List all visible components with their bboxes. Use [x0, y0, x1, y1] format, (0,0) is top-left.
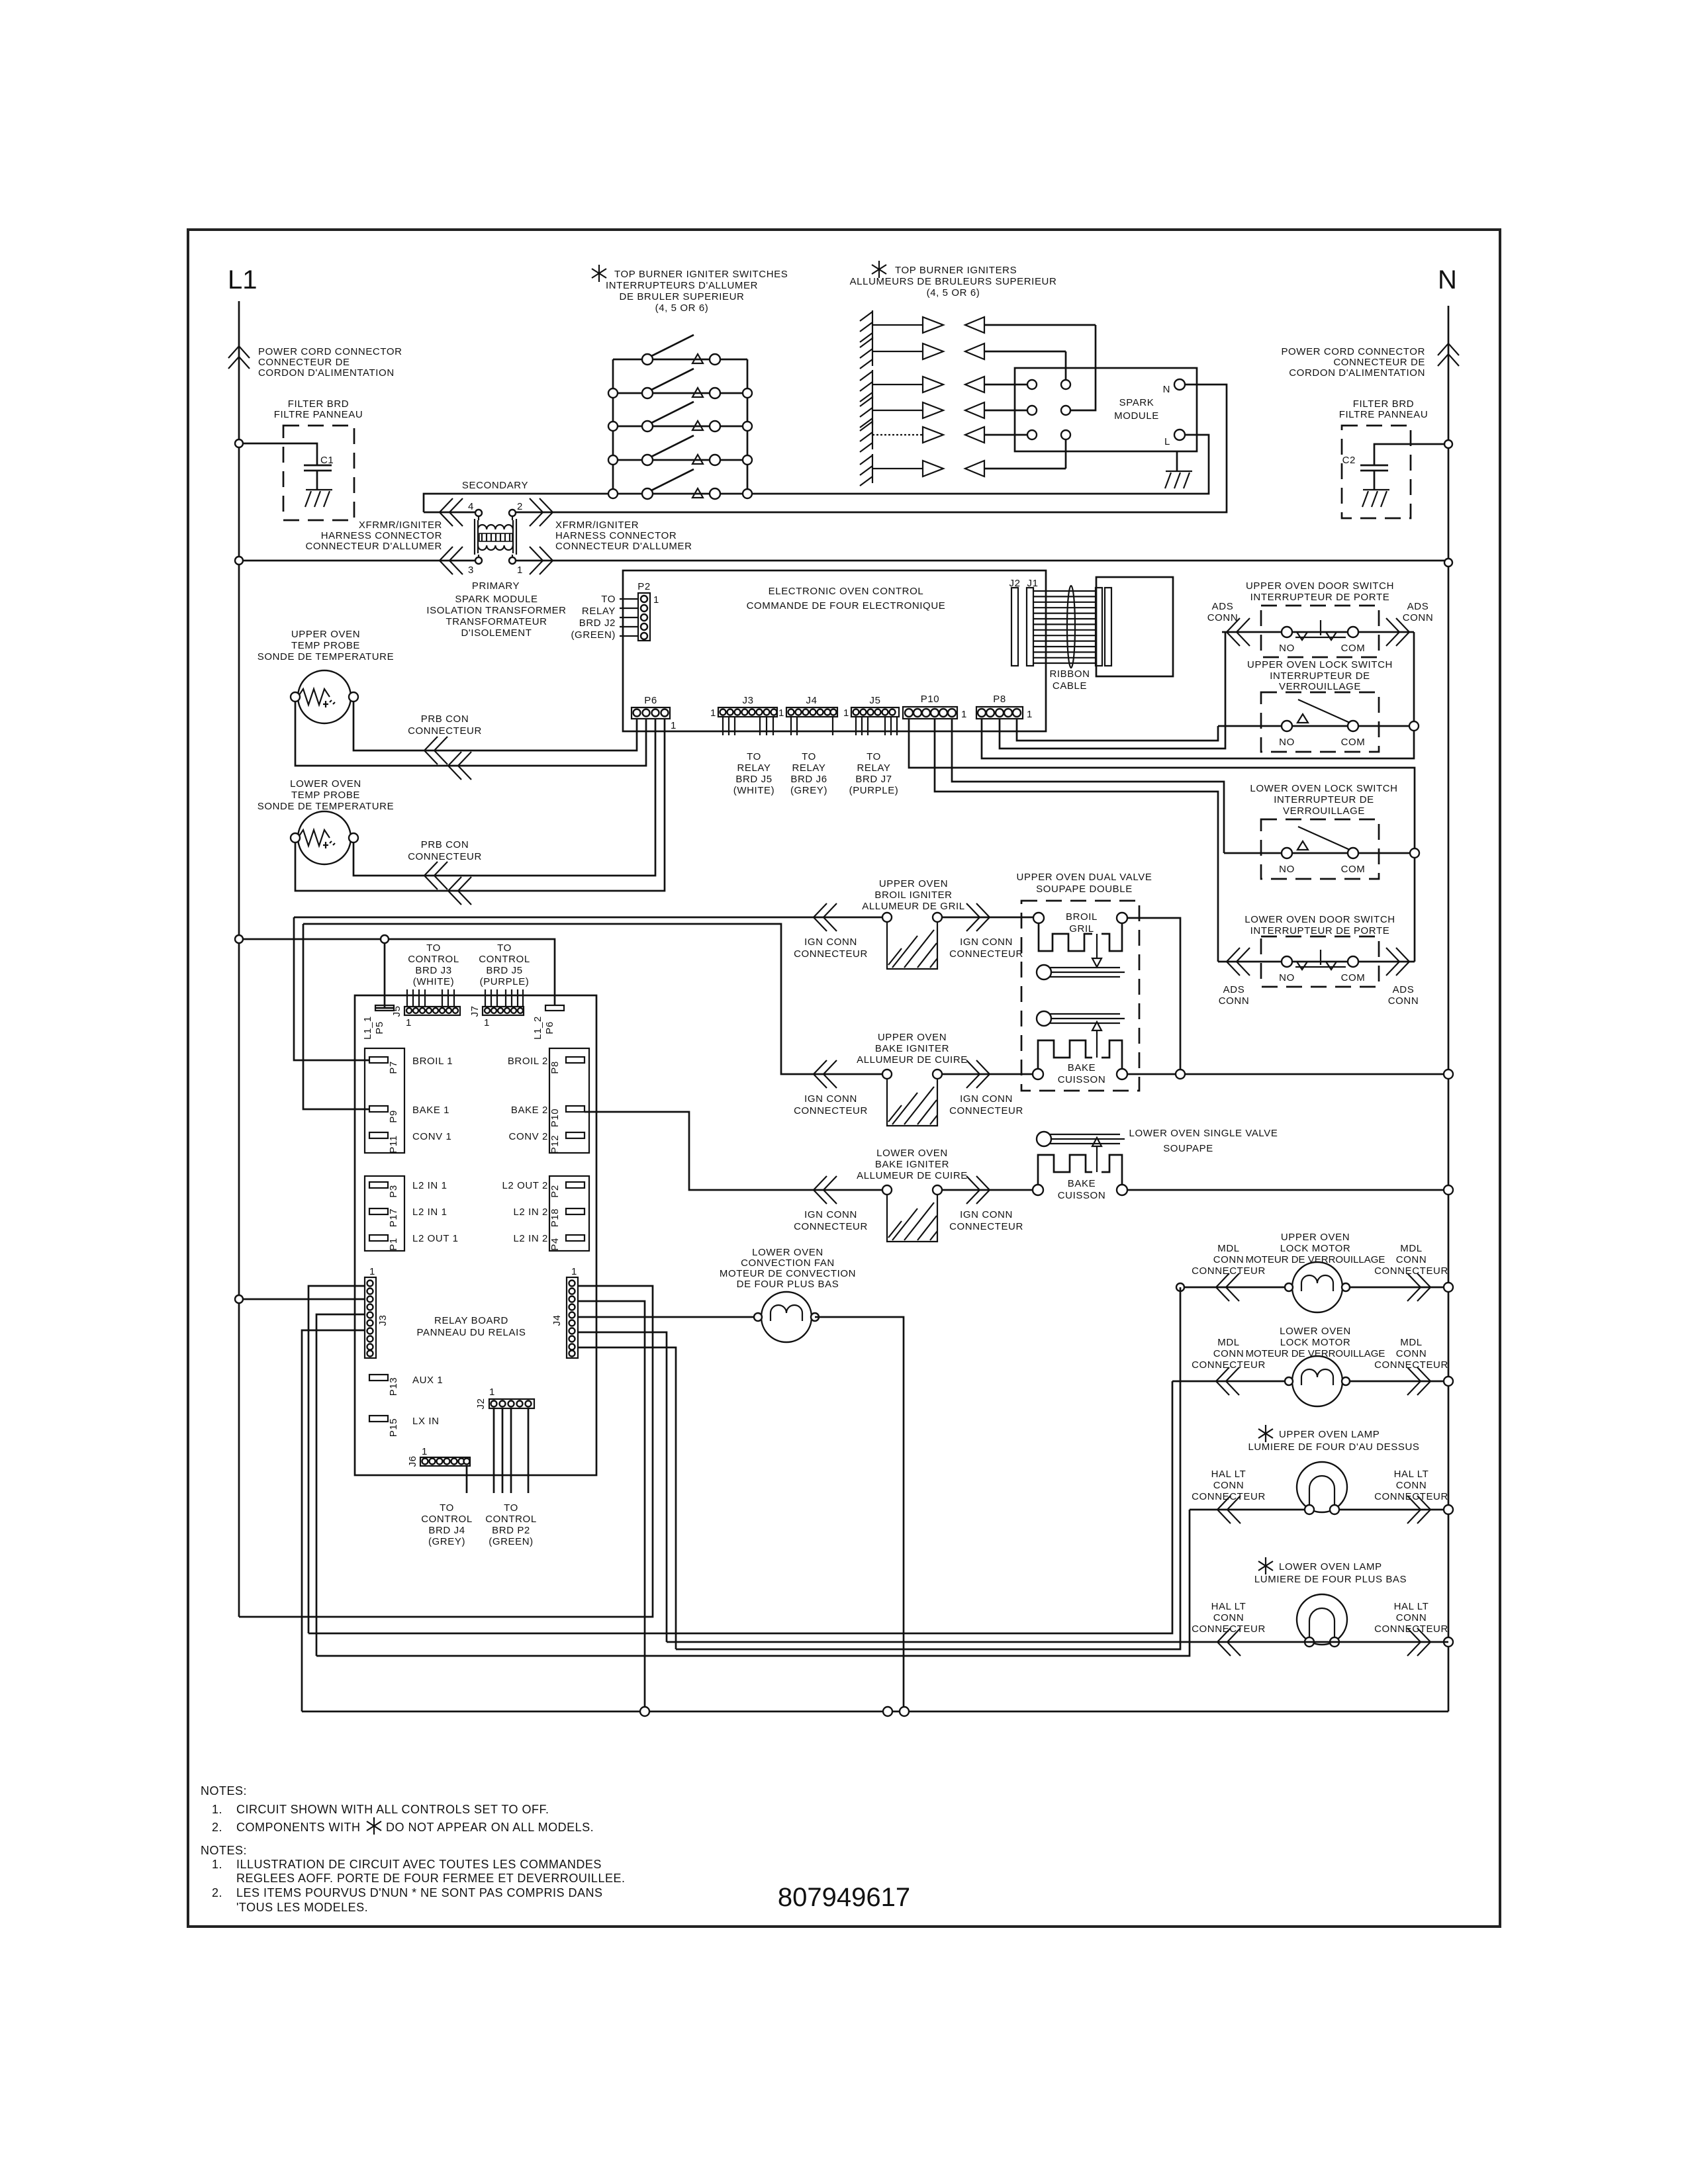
- svg-text:RELAY: RELAY: [582, 606, 616, 617]
- svg-text:HARNESS CONNECTOR: HARNESS CONNECTOR: [555, 530, 677, 541]
- svg-text:INTERRUPTEUR DE PORTE: INTERRUPTEUR DE PORTE: [1250, 925, 1390, 936]
- label top burner igniters: [872, 261, 886, 278]
- wire C2 to N: [1374, 444, 1448, 465]
- svg-text:P3: P3: [388, 1185, 399, 1198]
- wire upper probe right to P6 pin1: [353, 702, 637, 751]
- svg-text:IGN CONN: IGN CONN: [960, 1093, 1013, 1105]
- motor M3 lower lock: [1285, 1356, 1350, 1406]
- switch row 2: [608, 369, 752, 398]
- SECTION: loads: [720, 1232, 1453, 1711]
- label lower oven lamp: [1258, 1557, 1273, 1574]
- svg-text:UPPER OVEN: UPPER OVEN: [879, 878, 948, 889]
- svg-text:IGN CONN: IGN CONN: [960, 1209, 1013, 1220]
- connector J3 relay: [365, 1266, 389, 1358]
- svg-text:J3: J3: [377, 1314, 389, 1326]
- svg-text:INTERRUPTEUR DE PORTE: INTERRUPTEUR DE PORTE: [1250, 592, 1390, 603]
- temp probe RT1 upper: [291, 670, 358, 723]
- svg-text:ADS: ADS: [1212, 601, 1234, 612]
- svg-text:P12: P12: [549, 1135, 561, 1154]
- svg-text:VERROUILLAGE: VERROUILLAGE: [1283, 805, 1365, 817]
- svg-text:(GREEN): (GREEN): [489, 1536, 534, 1547]
- SECTION: probes: [258, 629, 665, 905]
- svg-text:CONN: CONN: [1403, 612, 1434, 623]
- wire bus B to lower lamp and N: [667, 1641, 1448, 1643]
- label upper oven lamp: [1258, 1425, 1273, 1442]
- upper oven dual valve box: [1021, 901, 1139, 1091]
- wire igniter row1 to pin: [1070, 325, 1096, 410]
- svg-text:UPPER OVEN: UPPER OVEN: [1281, 1232, 1350, 1243]
- burner upper oven broil: [1037, 965, 1125, 979]
- svg-text:D'ISOLEMENT: D'ISOLEMENT: [461, 627, 532, 639]
- svg-text:(GREEN): (GREEN): [571, 629, 616, 641]
- svg-text:C2: C2: [1342, 455, 1356, 466]
- svg-text:LUMIERE DE FOUR PLUS BAS: LUMIERE DE FOUR PLUS BAS: [1254, 1574, 1407, 1585]
- svg-text:SONDE DE TEMPERATURE: SONDE DE TEMPERATURE: [258, 801, 394, 812]
- svg-text:TO: TO: [440, 1502, 454, 1514]
- wire igniter to bake valve: [942, 1073, 1033, 1075]
- igniter electrode row 3: [860, 370, 1027, 402]
- svg-text:CONNECTEUR: CONNECTEUR: [1192, 1491, 1266, 1502]
- svg-text:REGLEES AOFF. PORTE DE FOUR FE: REGLEES AOFF. PORTE DE FOUR FERMEE ET DE…: [236, 1872, 625, 1885]
- lower door switch contacts: [1218, 950, 1415, 983]
- wire igniter to broil valve: [942, 917, 1033, 919]
- svg-text:CONN: CONN: [1213, 1254, 1244, 1265]
- svg-text:1: 1: [369, 1266, 375, 1277]
- svg-text:TO: TO: [497, 942, 512, 954]
- wire J4 to bottom bus: [577, 1301, 645, 1711]
- svg-text:SPARK MODULE: SPARK MODULE: [455, 594, 538, 605]
- hal chevrons lower: [1217, 1628, 1241, 1656]
- single valve terminals: [1033, 1185, 1043, 1195]
- wire P8 pin1 to upper lock NO: [1017, 719, 1218, 741]
- svg-text:NO: NO: [1279, 643, 1295, 654]
- motor M1 convection fan: [754, 1292, 819, 1342]
- pin P17: [369, 1208, 388, 1214]
- connector J4: [778, 695, 837, 735]
- svg-text:CONTROL: CONTROL: [408, 954, 459, 965]
- svg-text:P9: P9: [388, 1110, 399, 1123]
- svg-text:CONV 1: CONV 1: [412, 1131, 451, 1142]
- svg-text:AUX 1: AUX 1: [412, 1375, 443, 1386]
- svg-text:1: 1: [1027, 709, 1033, 720]
- svg-text:TRANSFORMATEUR: TRANSFORMATEUR: [445, 616, 547, 627]
- svg-text:CIRCUIT SHOWN WITH ALL CONTROL: CIRCUIT SHOWN WITH ALL CONTROLS SET TO O…: [236, 1803, 549, 1816]
- svg-text:BRD J5: BRD J5: [735, 774, 772, 785]
- svg-text:CONN: CONN: [1388, 995, 1419, 1007]
- lamp DS2 lower oven: [1297, 1594, 1347, 1647]
- pin P13: [369, 1375, 388, 1381]
- svg-text:J2: J2: [475, 1398, 487, 1409]
- svg-text:LOWER OVEN LOCK SWITCH: LOWER OVEN LOCK SWITCH: [1250, 783, 1397, 794]
- svg-text:MOTEUR DE CONVECTION: MOTEUR DE CONVECTION: [720, 1268, 856, 1279]
- svg-text:HAL LT: HAL LT: [1211, 1469, 1246, 1480]
- wire J4 to bus B: [577, 1332, 667, 1642]
- SECTION: notes: [201, 1784, 910, 1914]
- lower oven door switch S4 box: [1261, 936, 1379, 987]
- svg-text:CONNECTEUR: CONNECTEUR: [1374, 1265, 1448, 1277]
- svg-text:CUISSON: CUISSON: [1058, 1074, 1106, 1085]
- svg-text:FILTER BRD: FILTER BRD: [1353, 398, 1414, 410]
- svg-text:4: 4: [468, 501, 474, 512]
- svg-text:NO: NO: [1279, 864, 1295, 875]
- svg-text:CONNECTEUR DE: CONNECTEUR DE: [258, 357, 350, 368]
- pin P7: [369, 1057, 388, 1063]
- svg-text:CONN: CONN: [1207, 612, 1239, 623]
- igniter lower bake: [882, 1185, 942, 1242]
- svg-text:ISOLATION TRANSFORMER: ISOLATION TRANSFORMER: [426, 605, 566, 616]
- svg-text:(GREY): (GREY): [790, 785, 827, 796]
- svg-text:BRD J7: BRD J7: [855, 774, 892, 785]
- wire primary line left: [239, 560, 475, 562]
- svg-text:COM: COM: [1341, 737, 1366, 748]
- svg-text:CONNECTEUR D'ALLUMER: CONNECTEUR D'ALLUMER: [555, 541, 692, 552]
- svg-text:(WHITE): (WHITE): [413, 976, 455, 987]
- ign conn chevron left upper bake: [814, 1060, 837, 1088]
- connector J5: [843, 695, 899, 735]
- svg-text:BRD J5: BRD J5: [486, 965, 522, 976]
- junction L1/primary: [235, 557, 243, 565]
- spark module ground lead: [1176, 451, 1178, 471]
- svg-text:TO: TO: [747, 751, 761, 762]
- junction L1/C1: [235, 439, 243, 447]
- pin P18: [566, 1208, 585, 1214]
- junction lower rail lock COM: [1410, 848, 1419, 858]
- svg-text:L2 IN 1: L2 IN 1: [412, 1206, 447, 1218]
- svg-text:J7: J7: [469, 1005, 481, 1017]
- svg-text:PRB CON: PRB CON: [421, 713, 469, 725]
- temp probe RT2 lower: [291, 811, 358, 864]
- svg-text:P4: P4: [549, 1238, 561, 1251]
- svg-text:CONNECTEUR: CONNECTEUR: [794, 1105, 868, 1116]
- svg-text:P18: P18: [549, 1208, 561, 1228]
- junction bottom bus pair left: [883, 1707, 892, 1716]
- svg-text:3: 3: [468, 565, 474, 576]
- prb con chevrons upper: [424, 737, 447, 764]
- svg-text:MODULE: MODULE: [1114, 410, 1159, 422]
- wire P10 pin4 to lower door NO: [935, 719, 1218, 962]
- svg-text:LOWER OVEN DOOR SWITCH: LOWER OVEN DOOR SWITCH: [1244, 914, 1395, 925]
- svg-text:CONN: CONN: [1213, 1612, 1244, 1623]
- upper lock switch contacts: [1218, 700, 1414, 748]
- svg-text:TO: TO: [802, 751, 816, 762]
- svg-text:COMMANDE DE FOUR ELECTRONIQUE: COMMANDE DE FOUR ELECTRONIQUE: [747, 600, 946, 612]
- svg-text:2.: 2.: [212, 1821, 222, 1834]
- svg-text:MDL: MDL: [1400, 1243, 1422, 1254]
- SECTION: right switches: [909, 580, 1433, 1007]
- svg-text:UPPER OVEN LOCK SWITCH: UPPER OVEN LOCK SWITCH: [1247, 659, 1393, 670]
- igniter electrode row 2: [860, 337, 1066, 369]
- svg-text:BRD J4: BRD J4: [428, 1525, 465, 1536]
- svg-text:CONN: CONN: [1219, 995, 1250, 1007]
- svg-text:L2 IN 1: L2 IN 1: [412, 1180, 447, 1191]
- connector P10: [903, 694, 967, 720]
- svg-text:IGN CONN: IGN CONN: [804, 1093, 857, 1105]
- pin P10 relay: [566, 1106, 585, 1112]
- svg-text:P17: P17: [388, 1208, 399, 1228]
- svg-text:CONTROL: CONTROL: [479, 954, 530, 965]
- wire lower lock motor row: [1172, 1381, 1448, 1383]
- svg-text:BROIL: BROIL: [1066, 911, 1098, 923]
- svg-text:RELAY: RELAY: [737, 762, 771, 774]
- svg-text:J6: J6: [407, 1455, 418, 1467]
- igniter electrode row 4: [860, 396, 1027, 428]
- svg-text:XFRMR/IGNITER: XFRMR/IGNITER: [359, 520, 442, 531]
- filter board C1 dashed box: [283, 426, 354, 520]
- svg-text:BAKE 1: BAKE 1: [412, 1105, 449, 1116]
- svg-text:TOP BURNER IGNITER SWITCHES: TOP BURNER IGNITER SWITCHES: [614, 269, 788, 280]
- svg-text:UPPER OVEN: UPPER OVEN: [291, 629, 360, 640]
- upper oven door switch S1 box: [1261, 606, 1379, 657]
- pin P9: [369, 1106, 388, 1112]
- ign conn chevron right broil: [966, 903, 990, 931]
- connector J2 relay: [475, 1387, 534, 1410]
- svg-text:TO: TO: [426, 942, 441, 954]
- svg-text:CONNECTEUR: CONNECTEUR: [408, 851, 482, 862]
- wire L1 to P5/P6 feeds: [239, 939, 555, 1005]
- svg-text:(GREY): (GREY): [428, 1536, 465, 1547]
- svg-text:1: 1: [653, 594, 659, 606]
- svg-text:L: L: [1164, 436, 1170, 447]
- svg-text:TO: TO: [601, 594, 616, 605]
- svg-text:IGN CONN: IGN CONN: [960, 936, 1013, 948]
- switch bank right rail: [747, 359, 749, 494]
- svg-text:L2 OUT 2: L2 OUT 2: [502, 1180, 548, 1191]
- svg-text:L2 IN 2: L2 IN 2: [513, 1206, 548, 1218]
- L2 connector box left: [365, 1176, 404, 1251]
- svg-text:(WHITE): (WHITE): [733, 785, 775, 796]
- pin P2 relay: [566, 1182, 585, 1188]
- svg-text:SPARK: SPARK: [1119, 397, 1154, 408]
- svg-text:SOUPAPE DOUBLE: SOUPAPE DOUBLE: [1036, 884, 1133, 895]
- junction J3 L1: [235, 1295, 243, 1303]
- upper oven lock switch S2 box: [1261, 692, 1379, 752]
- svg-text:ALLUMEURS DE BRULEURS SUPERIEU: ALLUMEURS DE BRULEURS SUPERIEUR: [850, 276, 1057, 287]
- pin P8 relay: [566, 1057, 585, 1063]
- junction lower lock motor N: [1444, 1377, 1453, 1386]
- svg-text:J5: J5: [391, 1005, 402, 1017]
- spark module pins column 2: [1061, 380, 1070, 389]
- svg-text:MDL: MDL: [1217, 1337, 1239, 1348]
- junction bake wire N rail: [1444, 1069, 1453, 1079]
- svg-text:BAKE IGNITER: BAKE IGNITER: [875, 1159, 949, 1170]
- wire J4 to fan: [577, 1316, 754, 1318]
- svg-text:BRD J3: BRD J3: [415, 965, 451, 976]
- pin P4: [566, 1235, 585, 1241]
- wire bus D to upper lamp: [316, 1510, 1190, 1656]
- power cord connector symbol right: [1438, 343, 1459, 366]
- junction N/C2: [1444, 440, 1452, 448]
- filter board C2 dashed box: [1342, 426, 1411, 518]
- junction lock motor drop: [1176, 1283, 1184, 1291]
- wire bake2 to board edge: [585, 1111, 596, 1113]
- svg-text:P8: P8: [993, 694, 1006, 705]
- svg-text:UPPER OVEN DOOR SWITCH: UPPER OVEN DOOR SWITCH: [1246, 580, 1394, 592]
- wire upper door NO rail to P8 pin3: [1000, 632, 1225, 749]
- wire upper lock motor row: [1180, 1287, 1448, 1289]
- svg-text:1: 1: [671, 720, 677, 731]
- mdl chevrons upper: [1216, 1273, 1239, 1301]
- bake valve terminals: [1033, 1069, 1043, 1079]
- single valve solenoid: [1038, 1155, 1122, 1185]
- svg-text:CONN: CONN: [1213, 1348, 1244, 1359]
- pin P11: [369, 1132, 388, 1138]
- single valve up arrow: [1092, 1138, 1102, 1172]
- ribbon cable J2 J1: [1009, 577, 1173, 692]
- svg-text:COM: COM: [1341, 864, 1366, 875]
- svg-text:LOWER OVEN: LOWER OVEN: [752, 1247, 823, 1258]
- switch row 1: [613, 335, 747, 365]
- junction bottom bus fan drop: [900, 1707, 909, 1716]
- svg-text:DE BRULER SUPERIEUR: DE BRULER SUPERIEUR: [620, 291, 745, 302]
- mdl chevrons lower: [1216, 1367, 1239, 1395]
- svg-text:J5: J5: [869, 695, 880, 706]
- svg-text:CORDON D'ALIMENTATION: CORDON D'ALIMENTATION: [258, 367, 395, 379]
- svg-text:(PURPLE): (PURPLE): [849, 785, 899, 796]
- spark module box: [1015, 368, 1197, 451]
- svg-text:CABLE: CABLE: [1053, 680, 1087, 692]
- junction lower lamp N: [1444, 1637, 1453, 1647]
- SECTION: rails and power: [228, 265, 1459, 1711]
- svg-text:L2 OUT 1: L2 OUT 1: [412, 1233, 459, 1244]
- svg-text:1.: 1.: [212, 1803, 222, 1816]
- wire J4 to bus C: [577, 1347, 676, 1649]
- wire J6 stub down: [466, 1466, 468, 1493]
- svg-text:CONNECTEUR: CONNECTEUR: [794, 1221, 868, 1232]
- wire broil1 drop to P7: [294, 917, 369, 1060]
- svg-text:J4: J4: [806, 695, 817, 706]
- wire lower probe right to P6 pin3: [353, 719, 655, 876]
- ign conn chevron left broil: [814, 903, 837, 931]
- terminal P6 L1_2: [545, 1005, 564, 1011]
- svg-text:NOTES:: NOTES:: [201, 1844, 247, 1857]
- svg-text:DE FOUR PLUS BAS: DE FOUR PLUS BAS: [737, 1279, 839, 1290]
- svg-text:HARNESS CONNECTOR: HARNESS CONNECTOR: [321, 530, 442, 541]
- svg-text:1: 1: [422, 1446, 428, 1457]
- relay board box: [355, 995, 596, 1475]
- connector J3: [710, 695, 777, 735]
- svg-text:2: 2: [517, 501, 523, 512]
- svg-text:TO: TO: [867, 751, 881, 762]
- svg-text:N: N: [1163, 384, 1170, 395]
- svg-text:BAKE: BAKE: [1068, 1062, 1096, 1073]
- svg-text:LOCK MOTOR: LOCK MOTOR: [1280, 1337, 1351, 1348]
- svg-text:POWER CORD CONNECTOR: POWER CORD CONNECTOR: [1281, 346, 1425, 357]
- igniter electrode row 6: [860, 454, 1066, 486]
- svg-text:NO: NO: [1279, 972, 1295, 983]
- svg-text:PRB CON: PRB CON: [421, 839, 469, 850]
- svg-text:HAL LT: HAL LT: [1394, 1469, 1429, 1480]
- wire J3 to bus A: [308, 1286, 365, 1633]
- hal chevrons upper: [1217, 1496, 1241, 1524]
- svg-text:1: 1: [489, 1387, 495, 1398]
- wire secondary bus: [424, 435, 1209, 512]
- svg-text:VERROUILLAGE: VERROUILLAGE: [1279, 681, 1361, 692]
- svg-text:CONTROL: CONTROL: [485, 1514, 537, 1525]
- svg-text:CONTROL: CONTROL: [421, 1514, 473, 1525]
- SECTION: top burner switches: [592, 265, 788, 499]
- svg-text:CONVECTION FAN: CONVECTION FAN: [741, 1257, 835, 1269]
- svg-text:UPPER OVEN LAMP: UPPER OVEN LAMP: [1279, 1429, 1380, 1440]
- wire bake valve to N rail: [1127, 1073, 1448, 1075]
- svg-text:J3: J3: [742, 695, 753, 706]
- wire L1 to C1: [239, 443, 317, 465]
- svg-text:COMPONENTS WITH: COMPONENTS WITH: [236, 1821, 361, 1834]
- svg-text:L1_2: L1_2: [532, 1016, 543, 1040]
- svg-text:1: 1: [571, 1266, 577, 1277]
- pin P1: [369, 1235, 388, 1241]
- svg-text:TOP BURNER IGNITERS: TOP BURNER IGNITERS: [895, 265, 1017, 276]
- SECTION: relay board: [235, 917, 754, 1711]
- svg-text:PRIMARY: PRIMARY: [472, 580, 520, 592]
- wire bus A to lower lock motor: [308, 1381, 1172, 1633]
- svg-text:P5: P5: [374, 1021, 385, 1034]
- wire bottom bus: [302, 1711, 1448, 1713]
- broil valve solenoid: [1039, 923, 1122, 951]
- broil valve terminals: [1033, 913, 1044, 923]
- lower oven lock switch S3 box: [1261, 819, 1379, 879]
- svg-text:NOTES:: NOTES:: [201, 1784, 247, 1797]
- svg-text:RELAY: RELAY: [857, 762, 890, 774]
- svg-text:(PURPLE): (PURPLE): [480, 976, 530, 987]
- xfrmr harness connector chevron right bottom: [530, 547, 553, 574]
- spark module pin N: [1174, 379, 1185, 390]
- wire primary line right: [516, 560, 1448, 562]
- svg-text:807949617: 807949617: [778, 1883, 910, 1912]
- electronic oven control box U1: [623, 570, 1046, 731]
- svg-text:COM: COM: [1341, 643, 1366, 654]
- relay outputs connector box right: [549, 1048, 589, 1153]
- svg-text:1: 1: [710, 707, 716, 719]
- svg-text:1: 1: [778, 707, 784, 719]
- junction upper lamp N: [1444, 1505, 1453, 1514]
- svg-text:LES ITEMS POURVUS D'NUN * NE S: LES ITEMS POURVUS D'NUN * NE SONT PAS CO…: [236, 1886, 603, 1899]
- igniter electrode row 5: [860, 420, 1027, 452]
- wire bake2 feed: [596, 1112, 882, 1190]
- svg-text:RIBBON: RIBBON: [1049, 668, 1090, 680]
- wire N rail: [1448, 306, 1450, 1711]
- connector J7 relay: [469, 989, 524, 1028]
- svg-text:ALLUMEUR DE CUIRE: ALLUMEUR DE CUIRE: [857, 1170, 968, 1181]
- svg-text:LOWER OVEN: LOWER OVEN: [290, 778, 361, 790]
- svg-text:POWER CORD CONNECTOR: POWER CORD CONNECTOR: [258, 346, 402, 357]
- power cord connector symbol left: [228, 346, 250, 369]
- switch row 3: [608, 402, 752, 432]
- svg-text:P7: P7: [388, 1061, 399, 1074]
- wire P10 pin1 to lower lock NO: [952, 719, 1224, 853]
- connector J6 relay: [407, 1446, 470, 1467]
- junction upper lock motor N: [1444, 1283, 1453, 1292]
- wire J3 to bus D: [316, 1314, 365, 1656]
- burner upper oven bake: [1037, 1011, 1125, 1026]
- terminal P5 L1_1: [375, 1005, 394, 1008]
- svg-text:P13: P13: [388, 1377, 399, 1396]
- svg-text:TO: TO: [504, 1502, 518, 1514]
- wire P10 pin6 to lower right rail: [909, 719, 1415, 962]
- svg-text:1: 1: [484, 1017, 490, 1028]
- capacitor C2: [1360, 465, 1388, 490]
- svg-text:CONNECTEUR DE: CONNECTEUR DE: [1333, 357, 1425, 368]
- svg-text:LOWER OVEN: LOWER OVEN: [1280, 1326, 1351, 1337]
- wire igniter row2 to pin: [1065, 351, 1067, 380]
- transformer T1: [475, 510, 516, 564]
- svg-text:LOWER OVEN: LOWER OVEN: [876, 1148, 948, 1159]
- svg-text:CONNECTEUR: CONNECTEUR: [949, 1105, 1023, 1116]
- svg-text:P2: P2: [637, 581, 651, 592]
- svg-text:IGN CONN: IGN CONN: [804, 936, 857, 948]
- wire transformer pin2 to N rail: [516, 385, 1227, 512]
- svg-text:CONNECTEUR: CONNECTEUR: [949, 948, 1023, 960]
- upper door switch contacts: [1222, 620, 1414, 654]
